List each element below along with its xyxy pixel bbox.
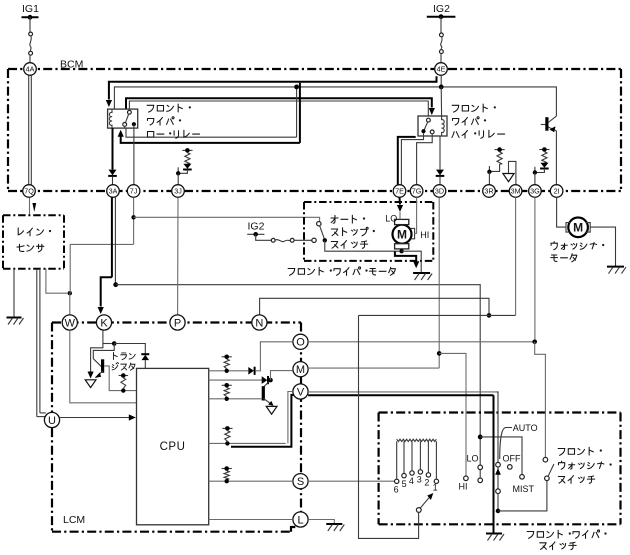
MIST contact <box>520 475 525 480</box>
wire 7E to motor LO <box>399 197 402 204</box>
letter circle L <box>293 512 308 527</box>
letter circle P <box>170 315 185 330</box>
auto stop switch contacts <box>312 222 327 243</box>
wire 4E stem <box>440 75 442 87</box>
label front wiper motor <box>288 269 295 276</box>
wire rain sensor to U double <box>36 269 38 417</box>
power rail tap R5 <box>119 375 128 377</box>
connector 4A <box>24 63 37 76</box>
HI contact <box>464 476 469 481</box>
power rail tap R2 <box>222 356 232 358</box>
node 3G junction <box>534 167 536 173</box>
svg-text:3G: 3G <box>530 187 540 196</box>
transistor Q2 <box>263 382 273 406</box>
power rail tap 3J <box>182 149 192 151</box>
wire coil to diode <box>112 128 114 170</box>
svg-text:MIST: MIST <box>513 484 535 494</box>
resistor ladder chain <box>397 439 437 441</box>
wire 7J branch to auto stop switch <box>133 197 135 244</box>
wire 4A to 7Q double <box>28 75 30 184</box>
svg-text:P: P <box>174 317 181 329</box>
CPU box <box>137 368 209 524</box>
wire V double to switch <box>308 391 497 393</box>
wire M junction up to M <box>271 371 293 381</box>
svg-text:IG2: IG2 <box>248 221 265 233</box>
svg-text:4: 4 <box>409 476 414 486</box>
label front wiper low relay <box>147 105 154 112</box>
relay coil low <box>109 109 112 128</box>
label rain sensor <box>18 228 23 235</box>
letter circle V <box>293 384 308 399</box>
label front wiper high relay <box>452 105 459 112</box>
svg-text:3A: 3A <box>109 187 118 196</box>
connector 7E <box>393 185 406 198</box>
resistor R2 <box>224 359 229 369</box>
relay front wiper low relay box <box>108 109 138 128</box>
wire washer motor to ground <box>590 227 615 266</box>
wire 2I to washer motor <box>557 197 566 227</box>
node IG1 <box>22 3 40 20</box>
wire CPU to L <box>209 519 293 521</box>
svg-text:IG1: IG1 <box>22 3 39 15</box>
svg-text:3D: 3D <box>435 187 444 196</box>
label auto stop switch <box>331 215 338 223</box>
wire to washer switch return <box>497 494 499 511</box>
wire 3M output hook <box>509 161 516 184</box>
node 3D branch <box>437 351 442 356</box>
svg-text:3R: 3R <box>484 187 493 196</box>
wire 3A branch to wiper switch LO <box>116 285 481 465</box>
connector 3R <box>483 185 496 198</box>
transistor Q3 <box>541 116 557 132</box>
wire contact to 7J <box>133 128 135 185</box>
power rail tap R3 <box>222 384 232 386</box>
node W junction <box>68 291 72 295</box>
wire K branch to diode <box>114 344 145 355</box>
letter circle M <box>293 362 308 377</box>
BCM module border <box>8 69 621 191</box>
svg-text:3M: 3M <box>511 187 521 196</box>
node IG2 <box>427 3 456 19</box>
wire diode to 3D <box>439 177 441 185</box>
connector 3J <box>172 185 185 198</box>
diode D1 <box>109 170 117 176</box>
wire motor to ground <box>401 249 403 251</box>
svg-text:4E: 4E <box>437 65 446 74</box>
letter circle N <box>252 315 267 330</box>
wire low relay contact to high relay bus <box>126 98 432 109</box>
svg-text:3J: 3J <box>174 187 182 196</box>
diode D2 <box>436 170 444 176</box>
wire 7G to motor HI <box>414 197 416 233</box>
wire 3J to P <box>177 197 179 314</box>
wire rain sensor to ground <box>13 269 15 318</box>
wire MIST branch <box>480 437 522 475</box>
wire diode to 3G node <box>535 169 545 173</box>
rotary ladder contacts <box>395 470 439 484</box>
label transistor <box>113 352 117 359</box>
svg-text:7E: 7E <box>395 187 404 196</box>
svg-text:7Q: 7Q <box>24 187 34 196</box>
LCM module border <box>52 323 301 532</box>
wire relay return inner <box>126 128 297 137</box>
letter circle S <box>293 474 308 489</box>
svg-text:2: 2 <box>424 477 429 487</box>
node 4E junction <box>439 85 444 90</box>
wire emitter to 2I <box>555 131 557 185</box>
wire CPU to S <box>209 480 293 482</box>
svg-text:4A: 4A <box>26 65 35 74</box>
svg-text:6: 6 <box>394 484 399 494</box>
label front washer switch <box>558 449 565 456</box>
power rail tap R4 <box>222 468 232 470</box>
wire 3D branch to HI contact <box>439 353 466 476</box>
wire to W <box>69 293 71 315</box>
wire bus line1 heavy to low relay <box>109 76 437 99</box>
arrow out Q1 <box>85 380 96 388</box>
wire 3M down <box>515 197 517 315</box>
node O 3G junction <box>532 340 537 345</box>
wire AUTO chain <box>497 467 499 489</box>
connector 3A <box>107 185 120 198</box>
diode D M <box>262 376 268 384</box>
connector inline IG1 <box>29 32 33 36</box>
relay contact high <box>421 118 434 134</box>
connector 3D <box>433 185 446 198</box>
rotary arm <box>416 508 421 513</box>
node R3 <box>225 397 229 401</box>
svg-text:L: L <box>297 514 303 526</box>
wire rotary common <box>359 315 419 538</box>
wire W to CPU <box>70 330 137 403</box>
svg-text:K: K <box>100 317 108 329</box>
svg-text:IG2: IG2 <box>433 3 450 15</box>
svg-text:7J: 7J <box>130 187 138 196</box>
svg-text:CPU: CPU <box>160 441 186 453</box>
connector 7G <box>410 185 423 198</box>
svg-text:5: 5 <box>402 479 407 489</box>
rain sensor box <box>3 215 64 268</box>
node 3A branch <box>113 282 118 287</box>
connector 4E <box>435 63 448 76</box>
connector 2I <box>550 185 563 198</box>
wire rain sensor to W <box>46 269 68 293</box>
ladder tap wires <box>396 441 398 479</box>
svg-text:O: O <box>296 337 305 349</box>
letter circle O <box>293 334 308 349</box>
OFF contact <box>508 465 513 470</box>
resistor R 3G <box>542 152 547 163</box>
power rail tap 3G <box>539 149 549 151</box>
svg-text:BCM: BCM <box>60 59 83 71</box>
ground rain sensor <box>7 317 22 319</box>
wire diode to O <box>255 342 293 371</box>
letter circle U <box>44 412 59 427</box>
wire coil to diode high <box>439 136 441 170</box>
connector 3G <box>529 185 542 198</box>
ground L <box>326 523 342 525</box>
node R5 <box>121 388 125 392</box>
diode D K <box>141 354 149 360</box>
wire 4E to transistor collector <box>443 87 556 116</box>
wire to auto stop contact <box>294 239 312 241</box>
connector 7Q <box>23 185 36 198</box>
wire 3A to K arrow <box>101 277 112 306</box>
wire L to ground <box>308 520 334 524</box>
svg-text:LO: LO <box>385 214 397 224</box>
letter circle K <box>96 315 111 330</box>
wire to 4E <box>440 54 442 63</box>
svg-text:AUTO: AUTO <box>513 423 538 433</box>
power rail tap 3R <box>495 149 505 151</box>
front wiper motor box <box>304 202 433 261</box>
wire diode to 3J node <box>178 170 187 174</box>
wire N to 3M and rotary <box>260 298 489 315</box>
wire V thin AUTO chain <box>497 392 498 463</box>
node 3R junction <box>488 166 490 172</box>
svg-text:3: 3 <box>417 474 422 484</box>
wire to 3G <box>534 173 536 185</box>
wire auto stop common to motor <box>325 240 400 251</box>
wire CPU to O with diode <box>209 370 248 372</box>
wire to 3R <box>488 172 490 185</box>
svg-text:HI: HI <box>459 482 468 492</box>
svg-text:S: S <box>297 476 304 488</box>
ground wiper motor <box>413 272 430 274</box>
svg-text:V: V <box>297 386 305 398</box>
relay coil high <box>442 116 445 136</box>
wire K to transistor Q1 <box>91 330 103 372</box>
connector 3M <box>509 185 522 198</box>
wire 4E to high relay coil <box>440 87 442 116</box>
wire relay return outer <box>121 137 300 143</box>
wire branch down to relay return double <box>299 83 301 143</box>
wire 7Q to rain sensor <box>29 198 31 215</box>
wire Q1 base to CPU <box>104 366 137 391</box>
resistor R4 <box>224 471 229 479</box>
washer motor M2 <box>566 218 590 238</box>
wire O to washer switch and 3G <box>308 341 533 343</box>
resistor R1 <box>225 431 230 442</box>
AUTO leader <box>500 428 512 460</box>
power rail tap R1 <box>222 427 232 429</box>
node R4 <box>225 479 229 483</box>
washer switch <box>543 457 554 480</box>
resistor R5 <box>121 378 126 389</box>
wire V heavy to ground <box>493 395 495 533</box>
node branch junction <box>294 85 299 90</box>
node R2 <box>225 369 229 373</box>
svg-text:HI: HI <box>420 230 429 240</box>
wiper motor M1 <box>393 219 415 249</box>
diode D 3G <box>540 163 548 168</box>
wire bus line2 to low relay coil <box>114 87 439 109</box>
wire CPU to V double <box>209 442 286 444</box>
AUTO contact <box>496 462 501 467</box>
front wiper switch box <box>379 413 621 525</box>
node M junction <box>268 378 273 383</box>
svg-text:7G: 7G <box>412 187 422 196</box>
arrow out 3M <box>503 174 514 182</box>
arrow out Q2 <box>266 406 277 414</box>
wire IG2 to connector <box>440 17 442 33</box>
svg-text:M: M <box>296 364 305 376</box>
svg-text:N: N <box>255 317 263 329</box>
svg-text:1: 1 <box>433 483 438 493</box>
resistor R 3J <box>185 153 190 164</box>
label washer motor <box>551 242 557 250</box>
letter circle W <box>62 315 77 330</box>
svg-text:OFF: OFF <box>503 454 521 464</box>
node 3J junction <box>177 167 179 173</box>
contact mid <box>496 489 501 494</box>
ground V <box>486 533 502 535</box>
node R1 <box>225 441 229 445</box>
wire 3R resistor to node <box>489 164 499 171</box>
wire IG2 tap to connector <box>256 234 272 240</box>
svg-text:LCM: LCM <box>63 514 85 526</box>
svg-text:M: M <box>397 228 407 242</box>
svg-text:2I: 2I <box>554 187 560 196</box>
transistor Q1 <box>93 344 114 378</box>
wire diode to CPU <box>144 360 146 368</box>
wire to washer switch top <box>535 342 546 458</box>
relay contact low <box>123 110 136 128</box>
wire 7J to W <box>70 244 133 293</box>
wire 3G down <box>534 197 536 340</box>
wire motor return arrow <box>395 251 416 261</box>
ground washer motor <box>607 266 624 268</box>
svg-text:M: M <box>573 221 583 235</box>
svg-text:LO: LO <box>467 454 479 464</box>
node MIST branch <box>478 435 483 440</box>
resistor R 3R <box>497 152 502 164</box>
wire high relay NC to 7E double <box>398 136 415 185</box>
wire CPU to M with diode <box>209 379 262 381</box>
wire IG1 to connector <box>29 17 31 32</box>
diode D O <box>248 367 254 375</box>
wire 3D down <box>438 197 440 368</box>
wire low relay common to high relay contact <box>129 101 428 118</box>
wire diode to 3A <box>112 177 114 185</box>
wire M to 3D <box>308 367 439 369</box>
wire CPU to Q2 base <box>209 398 262 400</box>
label front wiper switch <box>527 532 534 539</box>
wire V double left <box>288 392 293 444</box>
connector 7J <box>127 185 140 198</box>
svg-text:W: W <box>65 317 76 329</box>
wire S to resistor ladder <box>308 480 394 482</box>
diode D 3J <box>183 164 191 169</box>
connector inline auto stop <box>271 238 275 242</box>
wire to 3J <box>177 173 179 184</box>
resistor R3 <box>224 388 229 397</box>
wire U arrow to CPU <box>60 417 130 419</box>
LO contacts <box>478 465 483 483</box>
wire to 4A <box>29 55 31 63</box>
relay front wiper high relay box <box>418 116 447 136</box>
svg-text:U: U <box>48 415 56 427</box>
wire 3A heavy double down <box>111 197 113 277</box>
node K branch <box>112 341 117 346</box>
wire high relay NO to 7G <box>417 134 433 185</box>
connector inline IG2 <box>440 33 444 37</box>
